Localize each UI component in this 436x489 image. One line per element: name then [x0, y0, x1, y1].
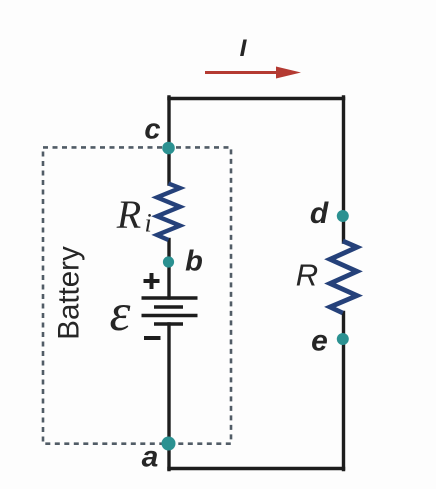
svg-text:e: e	[311, 325, 328, 358]
svg-text:a: a	[142, 441, 159, 474]
svg-text:b: b	[185, 246, 203, 278]
svg-text:i: i	[145, 209, 152, 238]
svg-text:R: R	[116, 192, 141, 237]
svg-text:R: R	[296, 258, 318, 293]
svg-text:d: d	[310, 197, 329, 230]
svg-text:Battery: Battery	[53, 246, 86, 340]
svg-text:I: I	[240, 35, 248, 62]
svg-text:ε: ε	[110, 284, 131, 342]
svg-text:c: c	[144, 114, 160, 146]
